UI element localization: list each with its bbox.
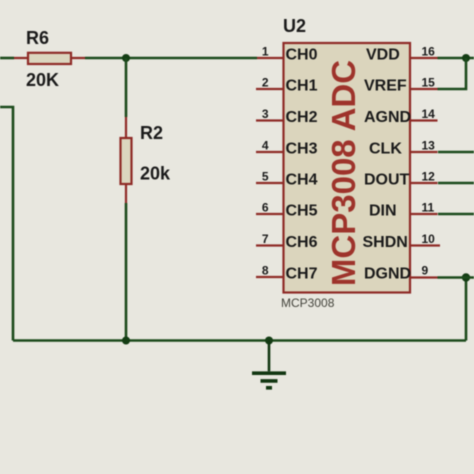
svg-text:DIN: DIN: [369, 203, 397, 220]
pin 4 stub: [256, 151, 284, 153]
pin 3 stub: [256, 119, 284, 121]
wire: [0, 107, 13, 341]
wire: [438, 213, 474, 216]
node C: [265, 337, 273, 345]
svg-text:CLK: CLK: [369, 141, 402, 158]
wire: [0, 57, 14, 60]
svg-text:20K: 20K: [26, 70, 59, 90]
pin 5 stub: [256, 182, 284, 184]
pin 6 stub: [256, 213, 284, 215]
svg-text:6: 6: [262, 201, 269, 215]
svg-text:VDD: VDD: [366, 47, 400, 64]
node B: [122, 337, 130, 345]
ground: [252, 341, 286, 388]
svg-text:CH0: CH0: [286, 47, 318, 64]
svg-text:15: 15: [422, 76, 436, 90]
resistor R2: [121, 117, 132, 203]
svg-text:4: 4: [262, 139, 269, 153]
wire: [438, 276, 474, 279]
pin 10 stub: [410, 244, 440, 246]
wire: [85, 57, 257, 60]
pin 8 stub: [256, 276, 284, 278]
wire: [438, 57, 474, 60]
svg-text:CH4: CH4: [286, 172, 318, 189]
svg-text:CH6: CH6: [286, 234, 318, 251]
svg-text:20k: 20k: [140, 164, 171, 184]
svg-text:VREF: VREF: [364, 78, 407, 95]
wire: [438, 182, 474, 185]
svg-text:7: 7: [262, 232, 269, 246]
svg-text:CH3: CH3: [286, 141, 318, 158]
node E: [462, 54, 470, 62]
svg-text:13: 13: [422, 139, 436, 153]
resistor R6: [14, 53, 85, 64]
svg-text:2: 2: [262, 76, 269, 90]
pin 9 stub: [410, 276, 438, 278]
svg-text:MCP3008 ADC: MCP3008 ADC: [325, 60, 362, 286]
pin 13 stub: [410, 151, 438, 153]
wire: [13, 339, 466, 342]
pin 12 stub: [410, 182, 438, 184]
op-amp U1 chip body U2: [284, 43, 411, 293]
svg-text:9: 9: [422, 264, 429, 278]
svg-text:U2: U2: [283, 16, 306, 36]
svg-text:DOUT: DOUT: [364, 172, 410, 189]
svg-text:16: 16: [422, 45, 436, 59]
svg-text:CH7: CH7: [286, 266, 318, 283]
pin 11 stub: [410, 213, 438, 215]
svg-text:SHDN: SHDN: [363, 234, 408, 251]
pin 16 stub: [410, 57, 438, 59]
wire: [125, 203, 128, 341]
svg-text:14: 14: [422, 107, 436, 121]
node A: [122, 54, 130, 62]
svg-text:1: 1: [262, 45, 269, 59]
svg-text:CH1: CH1: [286, 78, 318, 95]
pin 1 stub: [257, 57, 284, 59]
svg-text:R2: R2: [140, 123, 163, 143]
svg-text:3: 3: [262, 107, 269, 121]
svg-text:12: 12: [422, 170, 436, 184]
svg-text:10: 10: [422, 232, 436, 246]
wire: [438, 151, 474, 154]
svg-text:8: 8: [262, 264, 269, 278]
svg-text:CH2: CH2: [286, 109, 318, 126]
svg-text:CH5: CH5: [286, 203, 318, 220]
pin 7 stub: [256, 244, 284, 246]
svg-text:AGND: AGND: [364, 109, 411, 126]
svg-text:11: 11: [422, 201, 435, 215]
node D: [462, 273, 470, 281]
wire: [465, 278, 468, 341]
pin 2 stub: [256, 88, 284, 90]
svg-text:DGND: DGND: [364, 266, 411, 283]
wire: [125, 58, 128, 117]
pin 14 stub: [410, 119, 438, 121]
svg-text:MCP3008: MCP3008: [281, 296, 335, 310]
svg-text:R6: R6: [26, 28, 49, 48]
pin 15 stub: [410, 88, 438, 90]
svg-text:5: 5: [262, 170, 269, 184]
wire: [438, 58, 467, 89]
